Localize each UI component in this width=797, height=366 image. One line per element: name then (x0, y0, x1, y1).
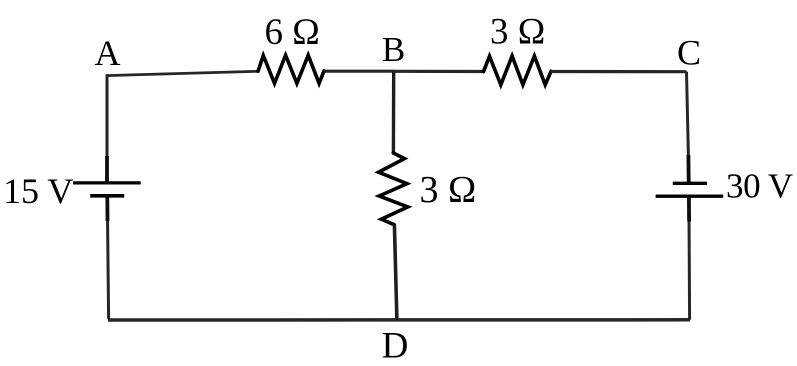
resistor R2 3-ohm zigzag (484, 56, 552, 85)
wire battery V1 to bottom-left corner (107, 196, 108, 319)
battery V2 top lead (687, 155, 691, 183)
svg-text:A: A (95, 33, 121, 73)
wire node B down to R3 (392, 71, 396, 153)
svg-text:3 Ω: 3 Ω (490, 11, 545, 52)
battery V2 short plate (673, 182, 707, 185)
battery V1 top lead (105, 156, 109, 183)
svg-text:C: C (677, 33, 701, 73)
battery V2 long plate (656, 194, 724, 197)
svg-text:6 Ω: 6 Ω (265, 12, 320, 53)
resistor R3 3-ohm vertical zigzag (379, 153, 408, 225)
svg-text:30 V: 30 V (726, 167, 793, 206)
wire node B to R2 (394, 70, 484, 73)
battery V1 bottom lead (105, 196, 109, 221)
wire A down to battery V1 (106, 74, 109, 182)
wire A to R1 (top-left horizontal) (107, 71, 258, 75)
battery V1 short plate (90, 194, 124, 198)
wire battery V2 to bottom-right corner (687, 196, 691, 320)
svg-text:D: D (382, 326, 409, 366)
wire R3 down to node D (394, 225, 397, 320)
wire R2 to node C (551, 70, 687, 73)
bottom wire rail (108, 318, 690, 322)
svg-text:3 Ω: 3 Ω (420, 169, 477, 211)
battery V1 long plate (73, 181, 141, 184)
resistor R1 6-ohm zigzag (258, 55, 324, 83)
svg-text:B: B (382, 30, 405, 69)
battery V2 bottom lead (687, 196, 691, 221)
wire R1 to node B (324, 70, 394, 73)
svg-text:15 V: 15 V (3, 171, 73, 211)
wire C down to battery V2 (687, 72, 689, 183)
